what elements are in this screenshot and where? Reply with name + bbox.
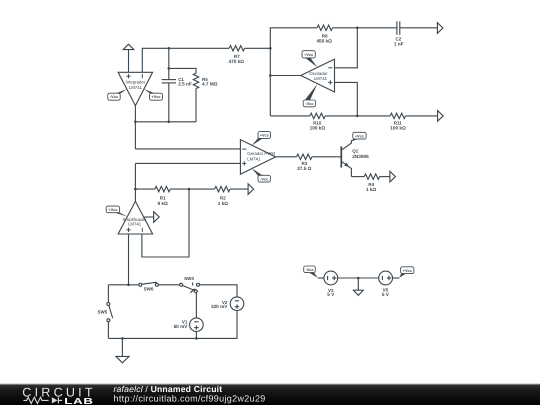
svg-text:5 V: 5 V — [382, 292, 390, 297]
dual supply row: -Vcc flag pointer — [309, 273, 318, 278]
junction: C1 leg at feedback bottom — [168, 121, 171, 124]
svg-text:LM741: LM741 — [247, 156, 261, 161]
wire: Amplificador output stem — [134, 163, 136, 201]
svg-text:rafaelcl / Unnamed Circuit: rafaelcl / Unnamed Circuit — [114, 384, 223, 394]
voltage source V5 — [379, 271, 393, 285]
CircuitLab logo — [22, 386, 95, 405]
wire: SW4 to V2 branch — [199, 285, 237, 297]
ground (bottom left) — [116, 338, 129, 362]
op-amp U2 Oscilador LM741 — [301, 59, 335, 92]
junction: oscillator output at bus — [269, 74, 272, 77]
svg-text:-Vcc: -Vcc — [305, 101, 314, 106]
-Vcc flag (supply row left) — [304, 266, 316, 273]
wire: C1 branch top — [168, 48, 170, 79]
wire: R5 bottom — [195, 89, 197, 122]
svg-text:Integrador: Integrador — [125, 80, 145, 85]
junction: ground tap at bottom net — [121, 337, 124, 340]
wire: SW4 common down to V1 — [195, 293, 197, 318]
wire: bus to R10 — [270, 115, 310, 117]
wire: R7 right to vertical bus — [245, 47, 271, 49]
wire: oscillator minus input — [335, 28, 358, 68]
svg-text:60 mV: 60 mV — [174, 324, 189, 329]
svg-text:4.7 MΩ: 4.7 MΩ — [202, 82, 218, 87]
wire: feedback bottom — [135, 121, 196, 123]
junction: integrator output at feedback bottom — [134, 121, 137, 124]
wire: R8 right to capacitor C2 — [333, 27, 397, 29]
+Vcc flag (Integrador right) — [144, 89, 155, 94]
junction: amplifier plus input at switch net — [127, 284, 130, 287]
wire: V2 down and bottom net — [108, 311, 237, 339]
node flag (up arrow at Integrador input) — [128, 50, 130, 73]
svg-text:-Vcc: -Vcc — [110, 94, 119, 99]
wire: R1 to R2 — [170, 188, 214, 190]
voltage source V2 — [230, 297, 244, 311]
wire: Integrador output down — [134, 106, 136, 149]
svg-text:+Vcc: +Vcc — [108, 207, 118, 212]
wire: V1 down to bottom net — [195, 332, 197, 339]
svg-text:2N3906: 2N3906 — [352, 154, 369, 159]
svg-text:+Vcc: +Vcc — [260, 133, 270, 138]
junction: R1-R2 node with feedback tap — [188, 188, 191, 191]
op-amp U4 Amplificador LM741 — [118, 201, 153, 234]
-Vcc flag (Gerador bottom) — [252, 168, 263, 175]
node flag (top right) — [437, 23, 443, 34]
wire: R10 to R11 — [325, 115, 390, 117]
voltage source V3 — [324, 271, 338, 285]
svg-text:470 kΩ: 470 kΩ — [229, 59, 245, 64]
svg-text:+Vcc: +Vcc — [355, 133, 365, 138]
junction: V1 at bottom net — [195, 337, 198, 340]
svg-text:R1: R1 — [160, 195, 166, 200]
wire: C2 to output flag — [400, 27, 437, 29]
capacitor C2 — [397, 21, 400, 35]
wire: Q1 emitter to R4 — [351, 176, 364, 178]
+Vcc flag (supply row right) — [401, 267, 414, 274]
resistor R11 — [390, 113, 405, 118]
wire: R11 to output flag — [406, 115, 438, 117]
wire: C1 bottom — [168, 83, 170, 122]
wire: feedback from R1-R2 junction to Amplificador minus input — [142, 189, 189, 257]
svg-text:LM741: LM741 — [314, 76, 328, 81]
svg-text:1 kΩ: 1 kΩ — [366, 187, 377, 192]
resistor R4 — [364, 174, 379, 179]
wire: -Vcc to V3 — [318, 277, 324, 279]
svg-text:-Vcc: -Vcc — [260, 176, 269, 181]
switch SW6 — [139, 282, 159, 286]
node flag (right, R11) — [438, 111, 444, 122]
svg-text:+Vcc: +Vcc — [151, 94, 161, 99]
+Vcc flag (Q1 collector) — [351, 139, 358, 142]
wire: Gerador PWM output to R3 — [276, 156, 297, 158]
wire: switch net top — [108, 284, 138, 286]
+Vcc flag (Gerador top) — [252, 138, 263, 145]
svg-text:SW6: SW6 — [144, 286, 154, 291]
junction: amplifier output at R1 — [134, 188, 137, 191]
wire: Amplificador output flag stub — [144, 216, 154, 218]
Vcc label flags — [106, 51, 414, 274]
svg-text:LAB: LAB — [64, 396, 93, 405]
junction: C1 branch at top net — [168, 47, 171, 50]
svg-text:450 kΩ: 450 kΩ — [316, 38, 332, 43]
junction: plus input branch at R10 net — [356, 115, 359, 118]
wire: SW6 to SW4 — [158, 284, 179, 286]
dual supply row: +Vcc flag pointer — [399, 274, 406, 278]
-Vcc flag (Oscilador bottom) — [305, 84, 318, 100]
wire: Amplificador output to Gerador PWM plus input — [135, 162, 240, 164]
wire: branch to R5 top — [169, 68, 196, 73]
junction: minus input branch at R8 net — [356, 27, 359, 30]
node flag (Amplificador) — [154, 212, 160, 223]
svg-text:+Vcc: +Vcc — [304, 52, 314, 57]
svg-text:SW5: SW5 — [98, 309, 108, 314]
node flag (R4 output) — [390, 171, 396, 182]
wire: Integrador output to Gerador PWM minus input — [135, 148, 240, 150]
wire: R4 to output flag — [380, 176, 390, 178]
transistor Q1 — [341, 140, 351, 176]
svg-text:1 kΩ: 1 kΩ — [218, 201, 229, 206]
resistor R7 — [229, 46, 244, 51]
svg-text:2.5 nF: 2.5 nF — [178, 82, 192, 87]
voltage source V1 — [190, 318, 204, 332]
resistor R1 — [155, 186, 170, 191]
op-amp U1 Integrador LM741 — [118, 72, 153, 105]
wire: Integrador minus input up and right to top net — [142, 48, 229, 72]
resistor R5 — [193, 73, 198, 88]
+Vcc flag (Amplificador left) — [115, 213, 128, 217]
svg-text:-Vcc: -Vcc — [305, 267, 314, 272]
wire: output to R1 — [135, 188, 155, 190]
svg-text:http://circuitlab.com/cf99ujg2: http://circuitlab.com/cf99ujg2w2u29 — [114, 394, 266, 404]
wire: V3 to V5 — [338, 277, 379, 279]
wire: R3 to Q1 base — [312, 156, 341, 158]
svg-text:1 nF: 1 nF — [394, 42, 404, 47]
resistor R10 — [310, 113, 325, 118]
resistor R8 — [317, 25, 332, 30]
capacitor C1 — [162, 80, 176, 83]
svg-text:LM741: LM741 — [128, 222, 142, 227]
node flag (R2 output) — [248, 184, 254, 195]
svg-text:5 V: 5 V — [327, 292, 335, 297]
wire: Amplificador plus input down to switch net — [128, 234, 130, 285]
svg-text:100 kΩ: 100 kΩ — [390, 126, 406, 131]
svg-text:9 kΩ: 9 kΩ — [157, 201, 168, 206]
-Vcc flag (Integrador left) — [116, 89, 127, 94]
wire: R2 to output flag — [230, 188, 248, 190]
op-amp U3 Gerador PWM LM741 — [240, 140, 275, 175]
junction: R7 at oscillator bus — [269, 47, 272, 50]
svg-text:+Vcc: +Vcc — [403, 268, 413, 273]
resistor R2 — [215, 186, 230, 191]
wire: oscillator plus input — [335, 82, 358, 116]
junction: ground tap between V3 and V5 — [357, 277, 360, 280]
switch SW4 — [180, 283, 200, 294]
svg-text:Q1: Q1 — [352, 149, 359, 154]
resistor R3 — [297, 154, 312, 159]
wire: oscillator feedback vertical bus — [270, 28, 317, 116]
switch SW5 — [107, 285, 113, 339]
wire: V5 to +Vcc — [393, 277, 400, 279]
svg-text:SW4: SW4 — [184, 276, 194, 281]
wire: oscillator output to bus — [270, 75, 301, 77]
svg-text:27.5 Ω: 27.5 Ω — [297, 166, 311, 171]
svg-text:100 kΩ: 100 kΩ — [310, 126, 326, 131]
svg-text:320 mV: 320 mV — [211, 304, 228, 309]
svg-text:LM741: LM741 — [129, 85, 143, 90]
junction: R5 branch at C1 leg — [168, 67, 171, 70]
svg-text:R2: R2 — [220, 195, 226, 200]
+Vcc flag (Oscilador top) — [305, 58, 317, 67]
ground (supply row) — [353, 278, 363, 295]
